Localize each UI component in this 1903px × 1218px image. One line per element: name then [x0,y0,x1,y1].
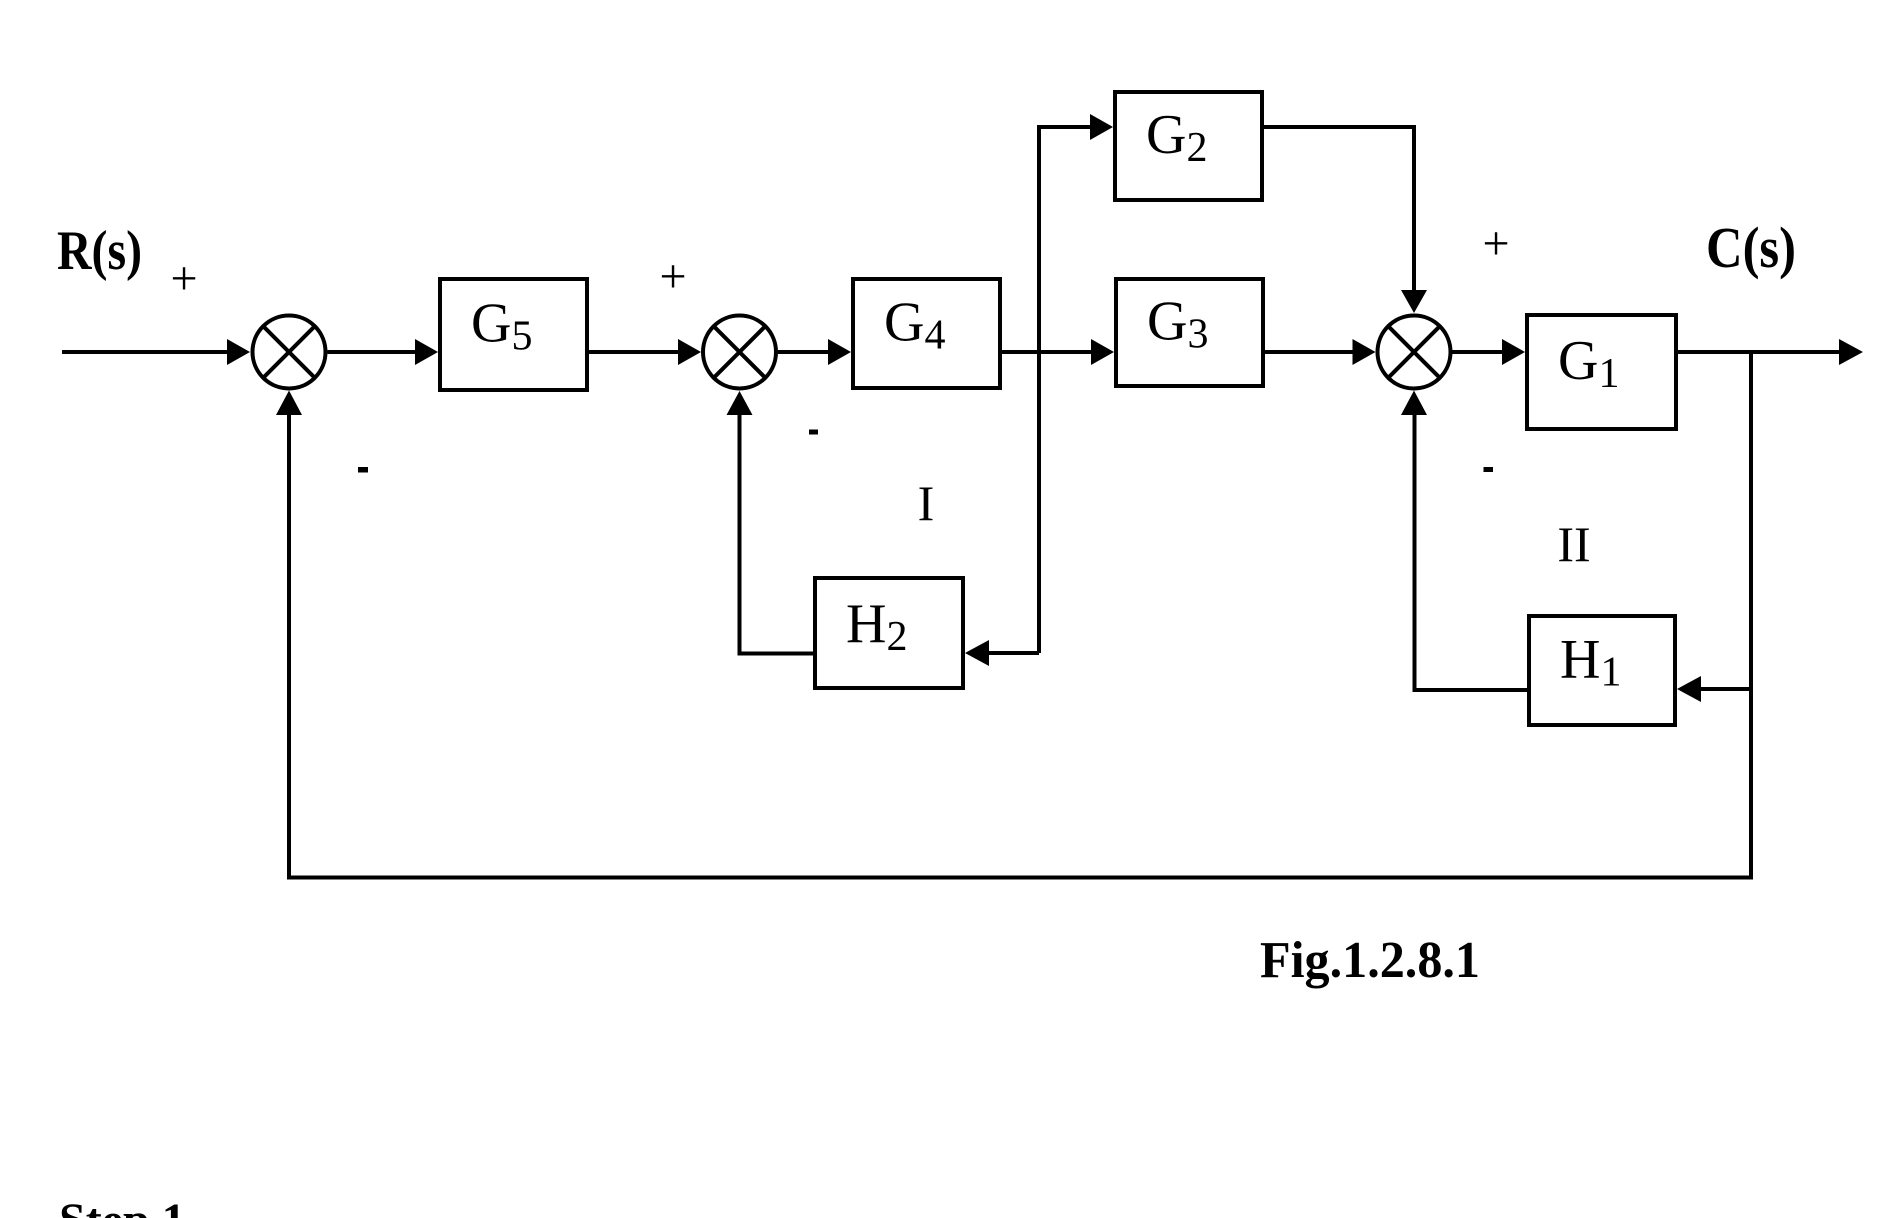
wire G4 to G3 with takeoff node [1002,350,1093,354]
sign - at S2 [809,430,818,435]
block G1 [1527,315,1676,429]
wire G2 output to S3 top [1264,127,1414,292]
wire branch to G2 [1037,125,1092,129]
wire input R(s) to summing junction S1 [62,350,229,354]
wire into H1 [1700,687,1753,691]
wire S1 to G5 [328,350,418,354]
svg-text:II: II [1557,516,1590,572]
block G4 [853,279,1000,388]
sign - at S3 [1484,467,1494,472]
summing junction S1 [253,316,326,389]
wire G5 to S2 [589,350,680,354]
wire H2 output to S2 bottom [740,413,814,654]
block H2 [815,578,963,688]
svg-text:+: + [659,250,686,303]
wire H1 output to S3 bottom [1415,413,1528,690]
svg-text:I: I [918,475,935,531]
wire into H2 [986,651,1039,655]
wire G3 to S3 [1265,350,1354,354]
block H1 [1529,616,1675,725]
svg-text:+: + [1482,217,1509,270]
wire outer feedback loop to S1 bottom [289,413,1751,878]
wire S2 to G4 [778,350,830,354]
wire takeoff branch vertical (to G2 up, to H2 down) [1037,127,1041,653]
summing junction S2 [703,316,776,389]
summing junction S3 [1378,316,1451,389]
sign - at S1 [358,467,368,473]
block G2 [1115,92,1262,200]
wire G1 to output C(s) [1678,350,1841,354]
svg-text:+: + [170,252,197,305]
block G3 [1116,279,1263,386]
wire output takeoff down to feedback [1749,352,1753,880]
svg-text:Step 1: Step 1 [59,1194,186,1218]
block G5 [440,279,587,390]
svg-text:Fig.1.2.8.1: Fig.1.2.8.1 [1260,932,1480,989]
svg-text:C(s): C(s) [1706,215,1796,280]
wire S3 to G1 [1452,350,1504,354]
svg-text:R(s): R(s) [57,220,142,282]
